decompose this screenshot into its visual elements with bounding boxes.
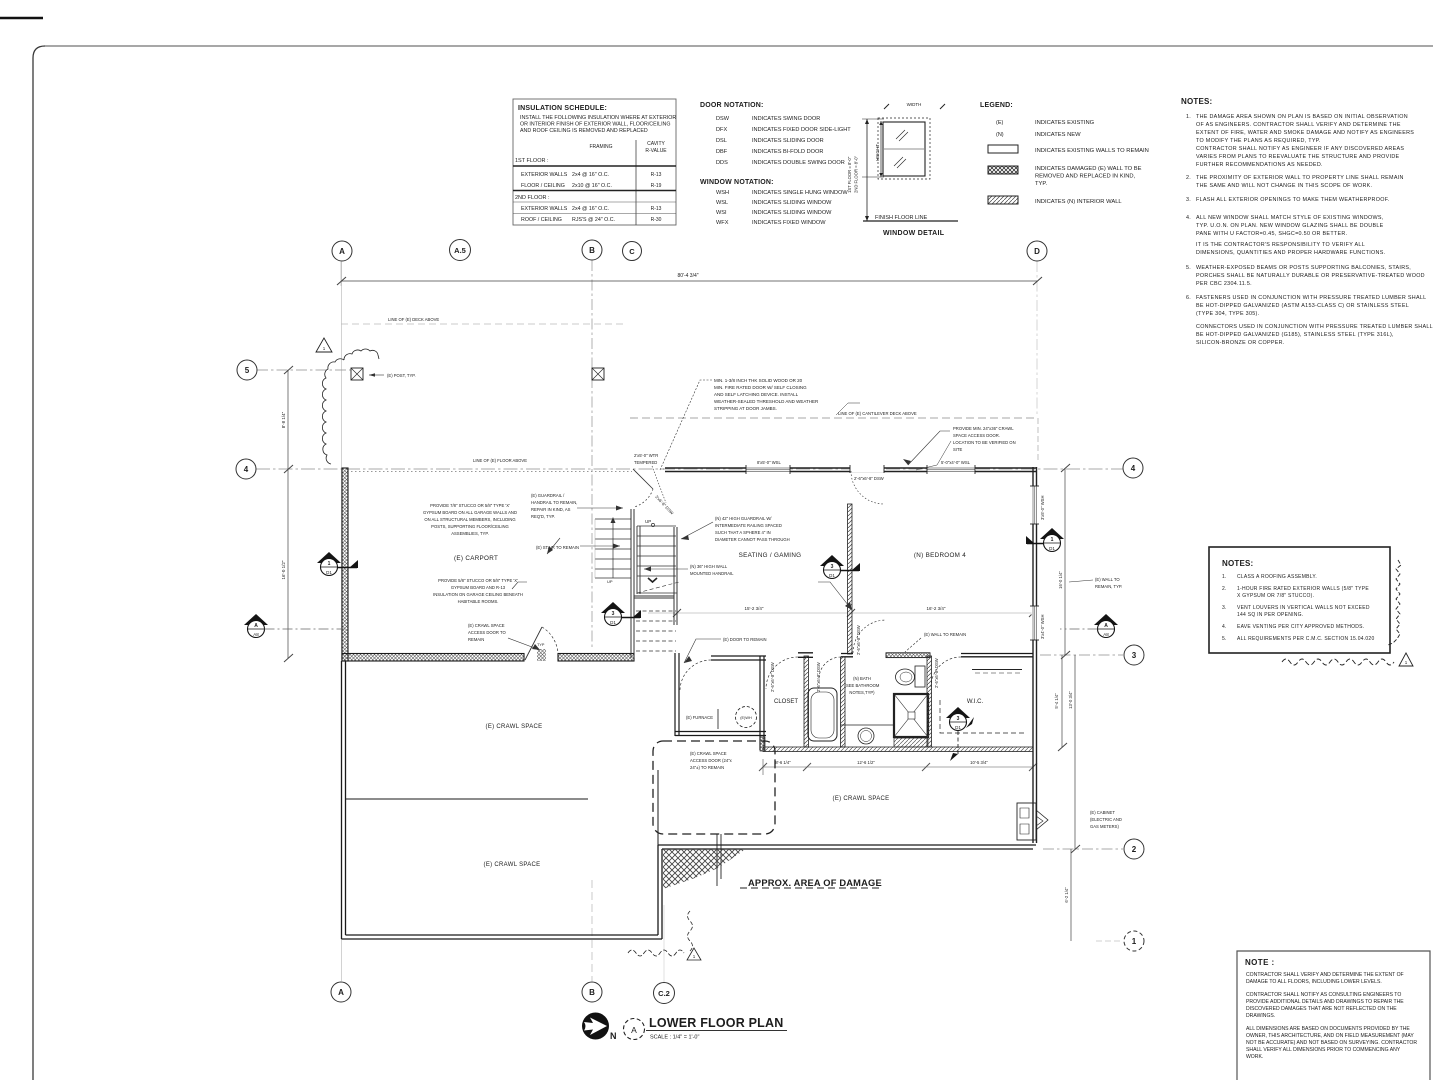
svg-text:2: 2 [1132, 845, 1137, 854]
svg-text:1.: 1. [1186, 114, 1191, 120]
svg-text:REMAIN, TYP.: REMAIN, TYP. [1095, 584, 1122, 589]
svg-text:CAVITY: CAVITY [647, 141, 665, 147]
svg-text:(E) STAIR TO REMAIN: (E) STAIR TO REMAIN [536, 545, 579, 550]
svg-text:GYPSUM BOARD ON ALL GARAGE WAL: GYPSUM BOARD ON ALL GARAGE WALLS AND [423, 510, 517, 515]
svg-text:SPACE ACCESS DOOR.: SPACE ACCESS DOOR. [953, 433, 1000, 438]
svg-text:HEIGHT: HEIGHT [875, 144, 880, 161]
svg-text:WORK.: WORK. [1246, 1054, 1263, 1060]
svg-text:(E) WALL TO REMAIN: (E) WALL TO REMAIN [924, 632, 966, 637]
svg-text:STRIPPING AT DOOR JAMBS.: STRIPPING AT DOOR JAMBS. [714, 406, 777, 411]
svg-text:OWNER, THIS ARCHITECTURE, AND: OWNER, THIS ARCHITECTURE, AND ON FIELD M… [1246, 1033, 1414, 1039]
svg-text:THE DAMAGE AREA SHOWN ON PLAN: THE DAMAGE AREA SHOWN ON PLAN IS BASED O… [1196, 114, 1408, 120]
svg-text:(E) CABINET: (E) CABINET [1090, 810, 1115, 815]
svg-text:IT IS THE CONTRACTOR'S RESPONS: IT IS THE CONTRACTOR'S RESPONSIBILITY TO… [1196, 242, 1365, 248]
svg-text:EXTERIOR WALLS: EXTERIOR WALLS [521, 172, 568, 178]
svg-text:16'-0 1/2": 16'-0 1/2" [281, 560, 286, 579]
svg-text:R-30: R-30 [651, 217, 662, 223]
svg-text:D1: D1 [955, 725, 961, 730]
svg-text:LINE OF (E) CANTILEVER DECK AB: LINE OF (E) CANTILEVER DECK ABOVE [838, 411, 917, 416]
svg-text:SUCH THAT A SPHERE 4" IN: SUCH THAT A SPHERE 4" IN [715, 530, 771, 535]
svg-text:OR INTERIOR FINISH OF EXTERIOR: OR INTERIOR FINISH OF EXTERIOR WALL, FLO… [520, 122, 671, 128]
svg-text:PROVIDE ADDITIONAL DETAILS AND: PROVIDE ADDITIONAL DETAILS AND DRAWINGS … [1246, 999, 1404, 1005]
svg-text:C: C [629, 247, 635, 256]
svg-text:(E) CARPORT: (E) CARPORT [454, 555, 498, 562]
svg-text:5'-4 1/4": 5'-4 1/4" [1054, 693, 1059, 709]
svg-text:PORCHES SHALL BE NATURALLY DUR: PORCHES SHALL BE NATURALLY DURABLE OR PR… [1196, 273, 1425, 279]
svg-text:8'-8 1/4": 8'-8 1/4" [281, 411, 286, 428]
svg-text:N: N [610, 1031, 617, 1041]
svg-text:(E): (E) [996, 120, 1004, 126]
svg-text:AND SELF LATCHING DEVICE. INST: AND SELF LATCHING DEVICE. INSTALL [714, 392, 799, 397]
svg-text:2'-6"x6'-8" DSW: 2'-6"x6'-8" DSW [770, 662, 775, 692]
svg-text:INDICATES EXISTING: INDICATES EXISTING [1035, 120, 1095, 126]
svg-text:2x10 @ 16" O.C.: 2x10 @ 16" O.C. [572, 183, 612, 189]
svg-text:(N) BATH: (N) BATH [853, 676, 871, 681]
svg-text:(N) BEDROOM 4: (N) BEDROOM 4 [914, 552, 966, 559]
svg-text:(E) POST, TYP.: (E) POST, TYP. [387, 373, 416, 378]
svg-text:FLASH ALL EXTERIOR OPENINGS TO: FLASH ALL EXTERIOR OPENINGS TO MAKE THEM… [1196, 197, 1390, 203]
svg-text:B: B [589, 988, 595, 997]
svg-text:CONTRACTOR SHALL NOTIFY AS CON: CONTRACTOR SHALL NOTIFY AS CONSULTING EN… [1246, 992, 1401, 998]
svg-text:AND ROOF CEILING IS REMOVED AN: AND ROOF CEILING IS REMOVED AND REPLACED [520, 128, 648, 134]
svg-text:SILICON-BRONZE OR COPPER.: SILICON-BRONZE OR COPPER. [1196, 340, 1285, 346]
svg-text:WSI: WSI [716, 210, 727, 216]
svg-text:WEATHER-EXPOSED BEAMS OR POSTS: WEATHER-EXPOSED BEAMS OR POSTS SUPPORTIN… [1196, 265, 1411, 271]
svg-text:SITE: SITE [953, 447, 963, 452]
svg-text:(N): (N) [996, 132, 1004, 138]
svg-text:FASTENERS USED IN CONJUNCTION: FASTENERS USED IN CONJUNCTION WITH PRESS… [1196, 295, 1426, 301]
svg-text:2'-6"x6'-8" DSW: 2'-6"x6'-8" DSW [856, 625, 861, 655]
svg-text:INDICATES (N) INTERIOR WALL: INDICATES (N) INTERIOR WALL [1035, 199, 1122, 205]
svg-text:ACCESS DOOR (24"x: ACCESS DOOR (24"x [690, 758, 733, 763]
svg-text:TYP.: TYP. [1035, 181, 1048, 187]
svg-text:OF AS ENGINEERS. CONTRACTOR SH: OF AS ENGINEERS. CONTRACTOR SHALL VERIFY… [1196, 122, 1401, 128]
svg-text:3: 3 [957, 716, 960, 722]
svg-text:(E) WALL TO: (E) WALL TO [1095, 577, 1120, 582]
svg-text:INDICATES DAMAGED (E) WALL TO: INDICATES DAMAGED (E) WALL TO BE [1035, 166, 1142, 172]
svg-text:(N) 42" HIGH GUARDRAIL W/: (N) 42" HIGH GUARDRAIL W/ [715, 516, 772, 521]
svg-text:PANE WITH U FACTOR=0.45, SHGC=: PANE WITH U FACTOR=0.45, SHGC=0.50 OR BE… [1196, 231, 1347, 237]
svg-text:(E) GUARDRAIL /: (E) GUARDRAIL / [531, 493, 565, 498]
svg-text:W.I.C.: W.I.C. [967, 699, 984, 705]
svg-text:UP: UP [645, 519, 651, 524]
svg-text:1: 1 [1051, 537, 1054, 543]
svg-text:EXTERIOR WALLS: EXTERIOR WALLS [521, 206, 568, 212]
svg-text:DIMENSIONS, QUANTITIES AND PRO: DIMENSIONS, QUANTITIES AND PROPER HARDWA… [1196, 250, 1385, 256]
svg-text:WFX: WFX [716, 220, 729, 226]
svg-text:GAS METERS): GAS METERS) [1090, 824, 1119, 829]
svg-text:1ST FLOOR = 8'-0": 1ST FLOOR = 8'-0" [847, 156, 852, 193]
svg-text:NOTES,TYP): NOTES,TYP) [849, 690, 875, 695]
svg-text:(ELECTRIC AND: (ELECTRIC AND [1090, 817, 1122, 822]
svg-text:LOWER FLOOR PLAN: LOWER FLOOR PLAN [649, 1016, 783, 1030]
svg-text:3: 3 [612, 611, 615, 617]
svg-text:MIN. 1-3/8 INCH THK SOLID WOOD: MIN. 1-3/8 INCH THK SOLID WOOD OR 20 [714, 378, 803, 383]
svg-text:SHALL VERIFY ALL DIMENSIONS PR: SHALL VERIFY ALL DIMENSIONS PRIOR TO COM… [1246, 1047, 1401, 1053]
svg-text:(N) 36" HIGH WALL: (N) 36" HIGH WALL [690, 564, 728, 569]
svg-text:D1: D1 [829, 573, 835, 578]
svg-text:(E) DOOR TO REMAIN: (E) DOOR TO REMAIN [723, 637, 767, 642]
svg-text:FURTHER RECOMMENDATIONS AS NEE: FURTHER RECOMMENDATIONS AS NEEDED. [1196, 162, 1323, 168]
svg-text:ON ALL STRUCTURAL MEMBERS, INC: ON ALL STRUCTURAL MEMBERS, INCLUDING [424, 517, 515, 522]
svg-text:2'-6"x6'-8" DSW: 2'-6"x6'-8" DSW [854, 476, 884, 481]
svg-text:CLASS A ROOFING ASSEMBLY.: CLASS A ROOFING ASSEMBLY. [1237, 574, 1317, 580]
svg-text:CLOSET: CLOSET [774, 699, 798, 705]
svg-text:EAVE VENTING PER CITY APPROVED: EAVE VENTING PER CITY APPROVED METHODS. [1237, 624, 1364, 630]
svg-text:BE HOT-DIPPED GALVANIZED (G185: BE HOT-DIPPED GALVANIZED (G185), STAINLE… [1196, 332, 1394, 338]
svg-text:DOOR NOTATION:: DOOR NOTATION: [700, 102, 764, 109]
svg-text:UP: UP [607, 579, 613, 584]
svg-text:R-19: R-19 [651, 183, 662, 189]
svg-text:2x4 @ 16" O.C.: 2x4 @ 16" O.C. [572, 172, 609, 178]
svg-text:LINE OF (E) DECK ABOVE: LINE OF (E) DECK ABOVE [388, 317, 439, 322]
svg-text:8'x5'-0" WSL: 8'x5'-0" WSL [757, 460, 781, 465]
svg-text:A: A [339, 247, 345, 256]
svg-text:5.: 5. [1222, 636, 1226, 642]
svg-text:DBF: DBF [716, 149, 728, 155]
svg-text:VENT LOUVERS IN VERTICAL WALLS: VENT LOUVERS IN VERTICAL WALLS NOT EXCEE… [1237, 605, 1370, 611]
svg-text:4.: 4. [1186, 215, 1191, 221]
svg-text:INDICATES SLIDING WINDOW: INDICATES SLIDING WINDOW [752, 210, 832, 216]
svg-text:D: D [1034, 247, 1040, 256]
svg-text:CONTRACTOR SHALL NOTIFY AS ENG: CONTRACTOR SHALL NOTIFY AS ENGINEER IF A… [1196, 146, 1404, 152]
svg-text:WEATHER-SEALED THRESHOLD AND W: WEATHER-SEALED THRESHOLD AND WEATHER [714, 399, 819, 404]
svg-text:3.: 3. [1222, 605, 1226, 611]
svg-text:(SEE BATHROOM: (SEE BATHROOM [845, 683, 880, 688]
svg-text:A8: A8 [253, 632, 259, 637]
svg-text:R-13: R-13 [651, 206, 662, 212]
svg-text:EXTENT OF FIRE, WATER AND SMOK: EXTENT OF FIRE, WATER AND SMOKE DAMAGE A… [1196, 130, 1414, 136]
svg-text:1: 1 [1132, 937, 1137, 946]
svg-text:3'x6'-8" DSW: 3'x6'-8" DSW [654, 494, 674, 515]
svg-text:DSW: DSW [716, 116, 730, 122]
svg-text:FINISH FLOOR LINE: FINISH FLOOR LINE [875, 215, 928, 221]
svg-text:16'-2 3/4": 16'-2 3/4" [927, 606, 946, 611]
svg-text:APPROX. AREA OF DAMAGE: APPROX. AREA OF DAMAGE [748, 878, 882, 888]
svg-text:THE SAME AND WILL NOT CHANGE I: THE SAME AND WILL NOT CHANGE IN THIS SCO… [1196, 183, 1372, 189]
svg-text:(E)WH: (E)WH [740, 716, 752, 720]
svg-text:C.2: C.2 [658, 989, 670, 998]
svg-text:INDICATES SINGLE HUNG WINDOW: INDICATES SINGLE HUNG WINDOW [752, 190, 848, 196]
svg-text:ALL REQUIREMENTS PER C.M.C. SE: ALL REQUIREMENTS PER C.M.C. SECTION 15.0… [1237, 636, 1375, 642]
svg-text:HABITABLE ROOMS.: HABITABLE ROOMS. [458, 599, 499, 604]
svg-text:(E) CRAWL SPACE: (E) CRAWL SPACE [486, 724, 543, 730]
svg-text:D1: D1 [1049, 546, 1055, 551]
svg-text:INDICATES NEW: INDICATES NEW [1035, 132, 1081, 138]
svg-text:DRAWINGS.: DRAWINGS. [1246, 1013, 1275, 1019]
svg-text:2'x5'-0" WTR: 2'x5'-0" WTR [634, 453, 658, 458]
svg-text:INDICATES SLIDING WINDOW: INDICATES SLIDING WINDOW [752, 200, 832, 206]
svg-text:1: 1 [1405, 660, 1408, 665]
svg-text:LINE OF (E) FLOOR ABOVE: LINE OF (E) FLOOR ABOVE [473, 458, 527, 463]
svg-text:INSULATION ON GARAGE CEILING B: INSULATION ON GARAGE CEILING BENEATH [433, 592, 523, 597]
svg-text:5.: 5. [1186, 265, 1191, 271]
svg-text:3'x5'-0" WSH: 3'x5'-0" WSH [1040, 496, 1045, 521]
svg-text:CONTRACTOR SHALL VERIFY AND DE: CONTRACTOR SHALL VERIFY AND DETERMINE TH… [1246, 972, 1404, 978]
svg-text:INSTALL THE FOLLOWING INSULATI: INSTALL THE FOLLOWING INSULATION WHERE A… [520, 115, 676, 121]
svg-text:16'-0 1/4": 16'-0 1/4" [1058, 571, 1063, 589]
svg-text:FRAMING: FRAMING [589, 144, 612, 150]
svg-text:REPAIR IN KIND, AS: REPAIR IN KIND, AS [531, 507, 571, 512]
svg-text:RJS'S @ 24" O.C.: RJS'S @ 24" O.C. [572, 217, 615, 223]
svg-text:INSULATION SCHEDULE:: INSULATION SCHEDULE: [518, 105, 607, 112]
svg-text:INDICATES FIXED WINDOW: INDICATES FIXED WINDOW [752, 220, 826, 226]
svg-text:1ST FLOOR :: 1ST FLOOR : [515, 158, 549, 164]
svg-text:10'-5 3/4": 10'-5 3/4" [970, 760, 988, 765]
svg-text:INDICATES BI-FOLD DOOR: INDICATES BI-FOLD DOOR [752, 149, 823, 155]
svg-text:2.: 2. [1186, 175, 1191, 181]
svg-text:13'-0 3/4": 13'-0 3/4" [1068, 691, 1073, 709]
svg-text:6'-2 1/4": 6'-2 1/4" [1064, 887, 1069, 903]
svg-text:WIDTH: WIDTH [907, 102, 922, 107]
svg-text:DDS: DDS [716, 160, 728, 166]
svg-text:INDICATES FIXED DOOR SIDE-LIGH: INDICATES FIXED DOOR SIDE-LIGHT [752, 127, 851, 133]
svg-text:NOTE :: NOTE : [1245, 958, 1275, 967]
svg-text:R-13: R-13 [651, 172, 662, 178]
svg-text:PROVIDE 7/8" STUCCO OR 5/8" TY: PROVIDE 7/8" STUCCO OR 5/8" TYPE 'X' [430, 503, 510, 508]
svg-text:6.: 6. [1186, 295, 1191, 301]
svg-text:WINDOW NOTATION:: WINDOW NOTATION: [700, 179, 774, 186]
svg-text:MOUNTED HANDRAIL: MOUNTED HANDRAIL [690, 571, 734, 576]
svg-text:SEATING / GAMING: SEATING / GAMING [739, 552, 802, 559]
svg-text:2x4 @ 16" O.C.: 2x4 @ 16" O.C. [572, 206, 609, 212]
svg-text:ACCESS DOOR TO: ACCESS DOOR TO [468, 630, 507, 635]
svg-text:VARIES FROM PLANS TO REEVALUAT: VARIES FROM PLANS TO REEVALUATE THE STRU… [1196, 154, 1400, 160]
svg-text:A8: A8 [1103, 632, 1109, 637]
svg-text:ALL DIMENSIONS ARE BASED ON DO: ALL DIMENSIONS ARE BASED ON DOCUMENTS PR… [1246, 1026, 1410, 1032]
svg-text:DFX: DFX [716, 127, 727, 133]
svg-text:1-HOUR FIRE RATED EXTERIOR WAL: 1-HOUR FIRE RATED EXTERIOR WALLS (5/8" T… [1237, 586, 1369, 592]
svg-text:NOT BE ACCURATE) AND NOT BASED: NOT BE ACCURATE) AND NOT BASED ON SURVEY… [1246, 1040, 1417, 1046]
svg-text:DIAMETER CANNOT PASS THROUGH: DIAMETER CANNOT PASS THROUGH [715, 537, 790, 542]
svg-text:D1: D1 [326, 570, 332, 575]
svg-text:CONNECTORS USED IN CONJUNCTION: CONNECTORS USED IN CONJUNCTION WITH PRES… [1196, 324, 1433, 330]
svg-text:X GYPSUM OR 7/8" STUCCO).: X GYPSUM OR 7/8" STUCCO). [1237, 593, 1314, 599]
svg-text:REMOVED AND REPLACED IN KIND,: REMOVED AND REPLACED IN KIND, [1035, 174, 1136, 180]
svg-text:24"±) TO REMAIN: 24"±) TO REMAIN [690, 765, 724, 770]
svg-text:1: 1 [693, 954, 696, 959]
svg-text:INDICATES SWING DOOR: INDICATES SWING DOOR [752, 116, 820, 122]
svg-text:ROOF / CEILING: ROOF / CEILING [521, 217, 562, 223]
svg-text:LOCATION TO BE VERIFIED ON: LOCATION TO BE VERIFIED ON [953, 440, 1016, 445]
svg-text:WSH: WSH [716, 190, 729, 196]
svg-text:WINDOW DETAIL: WINDOW DETAIL [883, 230, 945, 237]
svg-text:2'-6"x6'-8" DSW: 2'-6"x6'-8" DSW [934, 658, 939, 688]
svg-text:3.: 3. [1186, 197, 1191, 203]
svg-text:MIN. FIRE RATED DOOR W/ SELF C: MIN. FIRE RATED DOOR W/ SELF CLOSING [714, 385, 807, 390]
svg-text:5'-0"x4'-0" WSL: 5'-0"x4'-0" WSL [941, 460, 971, 465]
svg-text:TYP: TYP [537, 643, 545, 647]
svg-text:3: 3 [1132, 651, 1137, 660]
svg-text:15'-2 3/4": 15'-2 3/4" [745, 606, 764, 611]
svg-text:DISCOVERED DAMAGES THAT ARE NO: DISCOVERED DAMAGES THAT ARE NOT REFLECTE… [1246, 1006, 1397, 1012]
svg-text:80'-4 3/4": 80'-4 3/4" [677, 273, 698, 279]
svg-text:LEGEND:: LEGEND: [980, 102, 1013, 109]
svg-text:THE PROXIMITY OF EXTERIOR WALL: THE PROXIMITY OF EXTERIOR WALL TO PROPER… [1196, 175, 1404, 181]
svg-text:(E) CRAWL SPACE: (E) CRAWL SPACE [833, 796, 890, 802]
svg-text:A: A [338, 988, 344, 997]
svg-text:12'-6 1/2": 12'-6 1/2" [857, 760, 875, 765]
svg-text:1: 1 [323, 346, 326, 351]
svg-text:A.5: A.5 [454, 246, 466, 255]
svg-text:INDICATES DOUBLE SWING DOOR: INDICATES DOUBLE SWING DOOR [752, 160, 845, 166]
svg-text:4.: 4. [1222, 624, 1226, 630]
svg-text:DSL: DSL [716, 138, 727, 144]
svg-text:1.: 1. [1222, 574, 1226, 580]
svg-text:INTERMEDIATE RAILING SPACED: INTERMEDIATE RAILING SPACED [715, 523, 782, 528]
svg-text:FLOOR / CEILING: FLOOR / CEILING [521, 183, 565, 189]
svg-text:A: A [1104, 623, 1108, 629]
svg-text:144 SQ IN PER OPENING.: 144 SQ IN PER OPENING. [1237, 612, 1303, 618]
svg-text:A: A [254, 623, 258, 629]
svg-text:NOTES:: NOTES: [1181, 97, 1212, 106]
svg-text:1: 1 [328, 561, 331, 567]
svg-text:(E) CRAWL SPACE: (E) CRAWL SPACE [690, 751, 727, 756]
svg-text:PROVIDE 5/8" STUCCO OR 5/8" TY: PROVIDE 5/8" STUCCO OR 5/8" TYPE 'X' [438, 578, 518, 583]
svg-text:INDICATES EXISTING WALLS TO RE: INDICATES EXISTING WALLS TO REMAIN [1035, 148, 1149, 154]
svg-text:INDICATES SLIDING DOOR: INDICATES SLIDING DOOR [752, 138, 824, 144]
svg-text:(TYPE 304, TYPE 305).: (TYPE 304, TYPE 305). [1196, 311, 1259, 317]
svg-text:2ND FLOOR = 8'-0": 2ND FLOOR = 8'-0" [854, 155, 859, 193]
svg-text:PROVIDE MIN. 24"x36" CRAWL: PROVIDE MIN. 24"x36" CRAWL [953, 426, 1014, 431]
svg-text:SCALE : 1/4" = 1'-0": SCALE : 1/4" = 1'-0" [650, 1035, 699, 1041]
svg-text:REMAIN: REMAIN [468, 637, 484, 642]
svg-text:ASSEMBLIES, TYP.: ASSEMBLIES, TYP. [451, 531, 489, 536]
svg-text:WSL: WSL [716, 200, 728, 206]
svg-text:DAMAGE TO ALL FLOORS, INCLUDIN: DAMAGE TO ALL FLOORS, INCLUDING LOWER LE… [1246, 979, 1382, 985]
svg-text:PER CBC 2304.11.5.: PER CBC 2304.11.5. [1196, 281, 1252, 287]
svg-text:B: B [589, 246, 595, 255]
svg-text:(E) CRAWL SPACE: (E) CRAWL SPACE [484, 862, 541, 868]
svg-text:(E) FURNACE: (E) FURNACE [686, 715, 713, 720]
svg-text:ALL NEW WINDOW SHALL MATCH STY: ALL NEW WINDOW SHALL MATCH STYLE OF EXIS… [1196, 215, 1384, 221]
svg-text:TO MODIFY THE PLANS AS REQUIRE: TO MODIFY THE PLANS AS REQUIRED, TYP. [1196, 138, 1321, 144]
svg-text:(E) CRAWL SPACE: (E) CRAWL SPACE [468, 623, 505, 628]
svg-text:8'-6 1/4": 8'-6 1/4" [775, 760, 791, 765]
svg-text:TYP. U.O.N. ON PLAN. NEW WINDO: TYP. U.O.N. ON PLAN. NEW WINDOW GLAZING … [1196, 223, 1384, 229]
svg-text:5: 5 [245, 366, 250, 375]
svg-text:2.: 2. [1222, 586, 1226, 592]
svg-text:REQ'D, TYP.: REQ'D, TYP. [531, 514, 555, 519]
svg-text:GYPSUM BOARD AND R-13: GYPSUM BOARD AND R-13 [451, 585, 506, 590]
svg-text:TEMPERED: TEMPERED [634, 460, 657, 465]
svg-text:R-VALUE: R-VALUE [645, 148, 667, 154]
svg-text:D1: D1 [610, 620, 616, 625]
svg-text:3'x4'-0" WSH: 3'x4'-0" WSH [1040, 615, 1045, 640]
svg-text:3: 3 [831, 564, 834, 570]
svg-text:NOTES:: NOTES: [1222, 559, 1253, 568]
svg-text:POSTS, SUPPORTING FLOOR/CEILIN: POSTS, SUPPORTING FLOOR/CEILING [431, 524, 509, 529]
svg-text:A: A [631, 1025, 637, 1035]
svg-text:HANDRAIL TO REMAIN,: HANDRAIL TO REMAIN, [531, 500, 577, 505]
svg-text:2'-6"x6'-8" DSW: 2'-6"x6'-8" DSW [816, 662, 821, 692]
svg-text:2ND FLOOR :: 2ND FLOOR : [515, 195, 550, 201]
svg-text:BE HOT-DIPPED GALVANIZED (ASTM: BE HOT-DIPPED GALVANIZED (ASTM A153-CLAS… [1196, 303, 1409, 309]
svg-text:4: 4 [244, 465, 249, 474]
svg-text:4: 4 [1131, 464, 1136, 473]
